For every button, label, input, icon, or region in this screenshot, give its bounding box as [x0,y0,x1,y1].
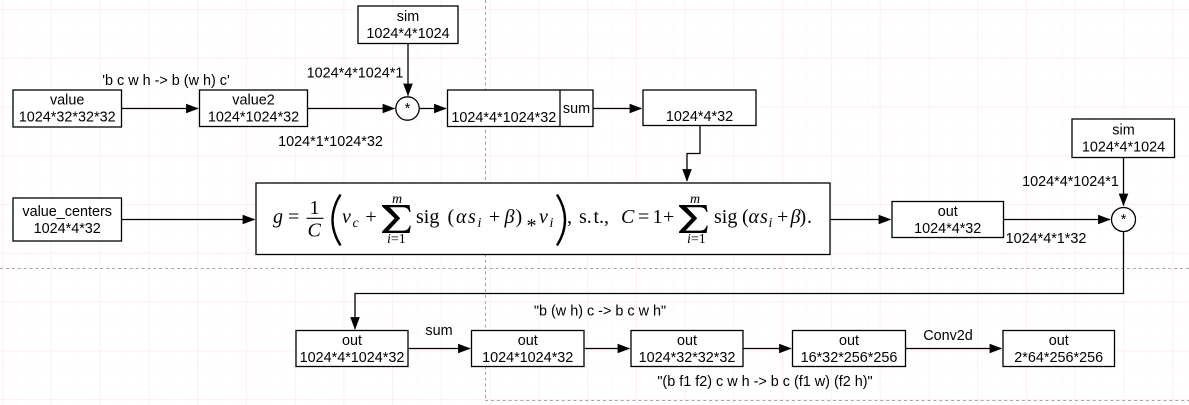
svg-text:value2: value2 [232,93,274,109]
svg-text:sim: sim [1112,123,1134,139]
page divider horizontal y=400 right half [485,400,1189,402]
box 1024*4*1024*32 with sum cell [448,90,594,127]
svg-text:): ) [516,206,523,228]
svg-text:i: i [478,216,482,231]
svg-text:1024*32*32*32: 1024*32*32*32 [639,350,736,366]
box outB3 [631,331,743,367]
box out right [892,202,1004,238]
wire sim1 to mult1 [407,44,409,96]
svg-text:α: α [749,206,760,228]
svg-text:(: ( [448,206,455,228]
box outB4 [793,331,906,367]
svg-text:'b c w h -> b (w h) c': 'b c w h -> b (w h) c' [102,73,230,89]
wire outB1 to outB2 [408,348,470,350]
svg-text:value: value [50,93,84,109]
svg-text:s: s [760,206,768,228]
svg-text:i: i [769,216,773,231]
svg-text:=: = [638,206,649,228]
svg-text:*: * [527,215,537,237]
formula: g = 1/C ( nu_c + sum sig(alpha s_i + beta) * nu_i ), s.t., C = 1 + sum sig(alpha s_i + beta). [273,192,812,247]
svg-text:g: g [273,206,283,228]
svg-text:1024*1024*32: 1024*1024*32 [208,110,299,126]
svg-text:m: m [392,192,402,207]
svg-text:sim: sim [397,9,419,25]
mult node 2 (circle *) [1112,208,1136,232]
svg-text:+: + [663,206,674,228]
wire value_centers to formula [122,219,255,221]
svg-text:c: c [353,216,360,231]
svg-text:ν: ν [342,206,351,228]
svg-text:*: * [405,101,411,117]
svg-text:=1: =1 [691,232,706,247]
svg-text:out: out [677,333,697,349]
svg-text:out: out [938,204,958,220]
wire outB2 to outB3 [584,348,630,350]
label 'b c w h -> b (w h) c' [102,73,230,89]
svg-text:.: . [807,206,812,228]
box sim2 [1072,119,1175,158]
svg-text:1024*4*1*32: 1024*4*1*32 [1006,231,1087,247]
box outB2 [472,331,585,367]
svg-text:"b (w h) c -> b c w h": "b (w h) c -> b c w h" [534,304,666,320]
svg-text:16*32*256*256: 16*32*256*256 [801,350,898,366]
svg-text:2*64*256*256: 2*64*256*256 [1014,350,1103,366]
box outB5 [1003,331,1115,367]
label Conv2d [923,328,973,344]
svg-text:1024*4*1024*1: 1024*4*1024*1 [1022,174,1119,190]
svg-text:1: 1 [653,206,663,228]
wire box1024_4_32 to formula (elbow) [687,126,700,182]
wire mult2 feedback to outB1 (elbow) [355,232,1124,330]
svg-text:out: out [518,333,538,349]
svg-text:1: 1 [310,197,320,219]
svg-text:1024*4*1024*32: 1024*4*1024*32 [300,350,405,366]
box value2 [200,90,308,127]
label 1024*4*1024*1 right [1022,174,1119,190]
svg-text:1024*4*1024*1: 1024*4*1024*1 [307,66,404,82]
formula box [256,183,830,255]
svg-text:s. t.,: s. t., [579,206,609,228]
wire value2 to mult1 [308,108,395,110]
svg-text:sum: sum [425,323,452,339]
svg-text:1024*4*1024*32: 1024*4*1024*32 [451,110,556,126]
svg-text:1024*4*1024: 1024*4*1024 [1082,140,1165,156]
svg-text:): ) [800,206,807,228]
svg-text:sig: sig [714,206,737,228]
svg-text:sum: sum [563,101,590,117]
svg-text:i: i [550,216,554,231]
svg-text:1024*4*32: 1024*4*32 [666,109,733,125]
svg-text:1024*4*1024: 1024*4*1024 [366,26,449,42]
box value [13,90,122,127]
svg-text:ν: ν [539,206,548,228]
svg-text:1024*4*32: 1024*4*32 [34,221,101,237]
box outB1 [296,331,408,367]
svg-text:,: , [567,206,572,228]
svg-text:m: m [690,192,700,207]
svg-text:out: out [342,333,362,349]
wire value to value2 [122,108,199,110]
svg-text:C: C [308,220,322,242]
svg-text:=: = [288,206,299,228]
svg-text:C: C [621,206,635,228]
svg-text:s: s [468,206,476,228]
label sum bottom [425,323,452,339]
box 1024*4*32 row1 [643,90,756,126]
svg-text:α: α [456,206,467,228]
wire sumbox to box1024_4_32 [593,108,642,110]
wire formula to out_r [830,219,891,221]
label "b (w h) c -> b c w h" [534,304,666,320]
svg-text:1024*1024*32: 1024*1024*32 [482,350,573,366]
box value_centers [13,198,122,241]
svg-text:1024*4*32: 1024*4*32 [914,221,981,237]
label 1024*1*1024*32 [278,134,383,150]
wire mult1 to sumbox [420,108,447,110]
svg-text:"(b f1 f2) c w h -> b c (f1 w): "(b f1 f2) c w h -> b c (f1 w) (f2 h)" [657,374,872,390]
svg-text:*: * [1121,212,1127,228]
page divider vertical x=485 [485,0,487,399]
label "(b f1 f2) c w h -> b c (f1 w) (f2 h)" [657,374,872,390]
wire sim2 to mult2 [1123,158,1125,206]
svg-text:value_centers: value_centers [22,204,112,220]
svg-text:+: + [489,206,500,228]
wire out_r to mult2 [1004,219,1111,221]
svg-text:+: + [365,206,376,228]
wire outB4 to outB5 [906,348,1002,350]
label 1024*4*1024*1 left [307,66,404,82]
svg-text:+: + [777,206,788,228]
svg-text:out: out [839,333,859,349]
svg-text:1024*32*32*32: 1024*32*32*32 [19,110,116,126]
svg-text:=1: =1 [391,232,406,247]
svg-text:out: out [1049,333,1069,349]
mult node 1 (circle *) [396,97,419,120]
svg-text:Conv2d: Conv2d [923,328,973,344]
label 1024*4*1*32 [1006,231,1087,247]
wire outB3 to outB4 [743,348,791,350]
svg-text:β: β [504,206,515,228]
page divider horizontal y=268 [0,268,1189,270]
svg-text:sig: sig [416,206,439,228]
svg-text:1024*1*1024*32: 1024*1*1024*32 [278,134,383,150]
box sim1 [358,6,458,44]
